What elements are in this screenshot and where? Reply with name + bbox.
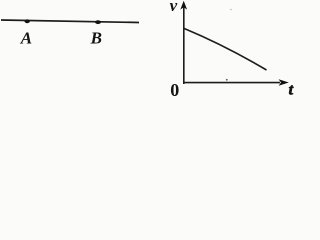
graph line: decreasing v(t) — [184, 28, 267, 70]
svg-text:v: v — [170, 0, 178, 15]
v axis arrowhead — [180, 1, 187, 10]
svg-text:B: B — [90, 29, 102, 48]
svg-text:t: t — [289, 82, 294, 99]
noise speck upper area — [230, 9, 232, 11]
t axis arrowhead — [279, 79, 289, 86]
v axis (vertical) — [183, 7, 185, 84]
svg-text:A: A — [20, 29, 32, 48]
noise speck near axis — [226, 79, 228, 81]
svg-text:0: 0 — [170, 80, 179, 98]
node B dot — [95, 20, 101, 24]
wire: horizontal line through A and B — [1, 20, 139, 23]
t axis (horizontal) — [183, 82, 280, 84]
node A dot — [25, 19, 30, 23]
